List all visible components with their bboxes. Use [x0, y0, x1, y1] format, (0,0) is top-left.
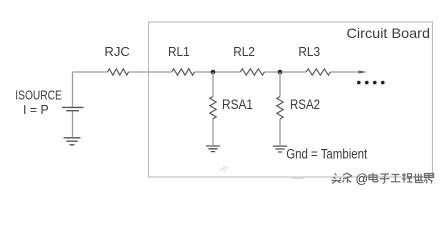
svg-text:RSA1: RSA1: [222, 97, 253, 112]
node B junction dot: [278, 70, 283, 75]
wire: RSA2 vertical: [279, 72, 281, 145]
faint watermark curl 2: [287, 176, 304, 179]
svg-text:RJC: RJC: [104, 45, 129, 59]
faint watermark curl 1: [219, 166, 228, 172]
resistor RJC: [108, 69, 129, 75]
ground (RSA1): [206, 146, 220, 152]
wire: ISOURCE vertical: [72, 72, 74, 137]
svg-text:ISOURCE: ISOURCE: [15, 88, 62, 102]
watermark 头条@电子工程世界: [332, 173, 434, 184]
ground (RSA2): [273, 146, 288, 152]
wire: main horizontal rail: [73, 71, 364, 73]
wire: RSA1 vertical: [212, 72, 214, 145]
svg-text:RL1: RL1: [168, 45, 190, 59]
node A junction dot: [211, 70, 216, 75]
resistor RL2: [240, 69, 264, 75]
source ISOURCE battery plates: [62, 107, 83, 110]
resistor RSA1: [210, 97, 216, 119]
resistor RSA2: [277, 97, 283, 120]
resistor RL3: [306, 69, 330, 75]
svg-text:RL2: RL2: [233, 45, 255, 59]
resistor RL1: [172, 69, 195, 75]
continuation dots: [357, 81, 385, 85]
svg-text:I = P: I = P: [23, 103, 49, 117]
svg-text:Gnd = Tambient: Gnd = Tambient: [286, 147, 367, 162]
svg-text:@: @: [356, 172, 369, 186]
circuit board outline: [149, 22, 433, 177]
svg-text:Circuit Board: Circuit Board: [347, 25, 431, 41]
svg-text:RL3: RL3: [298, 45, 320, 59]
wire end tick: [359, 70, 368, 73]
ground (ISOURCE): [64, 138, 81, 145]
svg-text:RSA2: RSA2: [290, 97, 320, 112]
